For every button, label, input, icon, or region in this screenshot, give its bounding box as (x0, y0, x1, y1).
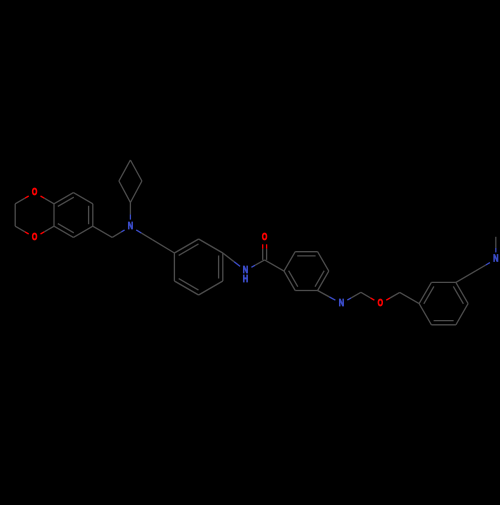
bond R3TR-R3BR (219, 253, 223, 281)
svg-text:O: O (32, 232, 38, 243)
bond CH2d-O7 (361, 292, 375, 300)
bond R3TL-R3top (174, 239, 198, 255)
bond O1-A2 (15, 196, 29, 204)
bond B4-B5 (89, 204, 93, 226)
bond O7-CH2e (386, 292, 400, 300)
bond Car1-O1 (41, 196, 55, 204)
bond R6BL-R6L (419, 304, 431, 325)
bond CbL-CbT (119, 160, 130, 181)
bond Car2-Car1 (53, 204, 55, 226)
svg-text:N: N (339, 298, 344, 309)
bond A2-A3 (14, 204, 16, 226)
bond R3TR-N4 (223, 253, 240, 266)
bond R3BL-R3TL (173, 253, 175, 281)
bond B5-B6 (73, 226, 92, 237)
bond O2-Car2 (41, 226, 55, 234)
bond R4TL-R4TR (295, 252, 317, 256)
bond R4BL-R4L (284, 271, 298, 291)
bond N6-CH2d (347, 292, 361, 300)
svg-text:N: N (493, 254, 498, 265)
bond R6TR-CH2f (456, 271, 476, 283)
bond CbT-CbR (130, 160, 142, 181)
bond R6TR-R6R (453, 282, 468, 303)
svg-text:O: O (262, 232, 268, 243)
bond R3top-R3TR (199, 239, 223, 253)
bond Cc-O5 (263, 244, 267, 260)
bond N3-CH2b (136, 230, 152, 240)
bond R4L-R4TL (284, 252, 295, 271)
bond R3BR-R3bot (199, 281, 223, 295)
bond R6R-R6BR (456, 304, 468, 325)
bond CH2b-R3TL (152, 240, 174, 253)
svg-text:O: O (32, 187, 38, 198)
svg-text:O: O (378, 298, 384, 309)
bond CH2f-N8 (476, 263, 490, 271)
bond R3bot-R3BL (174, 279, 198, 295)
bond Cc-R4L (265, 260, 284, 271)
bond CH2a-N3 (112, 230, 124, 238)
bond Car1-B3 (54, 193, 74, 207)
bond N8-CH3g (495, 237, 497, 253)
svg-text:N: N (128, 221, 133, 232)
bond R4R-R4BR (315, 271, 329, 291)
bond CH2e-R6L (400, 292, 419, 303)
bond N3-Cb1 (129, 203, 131, 220)
bond N4-Cc (251, 260, 264, 267)
bond B5-CH2a (93, 226, 112, 237)
svg-text:H: H (243, 274, 248, 285)
bond A3-O2 (15, 226, 29, 234)
bond B6-Car2 (54, 224, 74, 238)
bond R4TR-R4R (318, 252, 329, 271)
bond R6L-R6TL (419, 282, 434, 303)
bond R4BR-R4BL (295, 290, 317, 292)
bond R4BR-N6 (318, 291, 336, 301)
bond Cb1-CbL (119, 181, 130, 203)
bond R6TL-R6TR (431, 281, 456, 283)
bond B3-B4 (73, 193, 92, 204)
bond R6BR-R6BL (431, 321, 456, 325)
bond CbR-Cb1 (130, 181, 142, 203)
